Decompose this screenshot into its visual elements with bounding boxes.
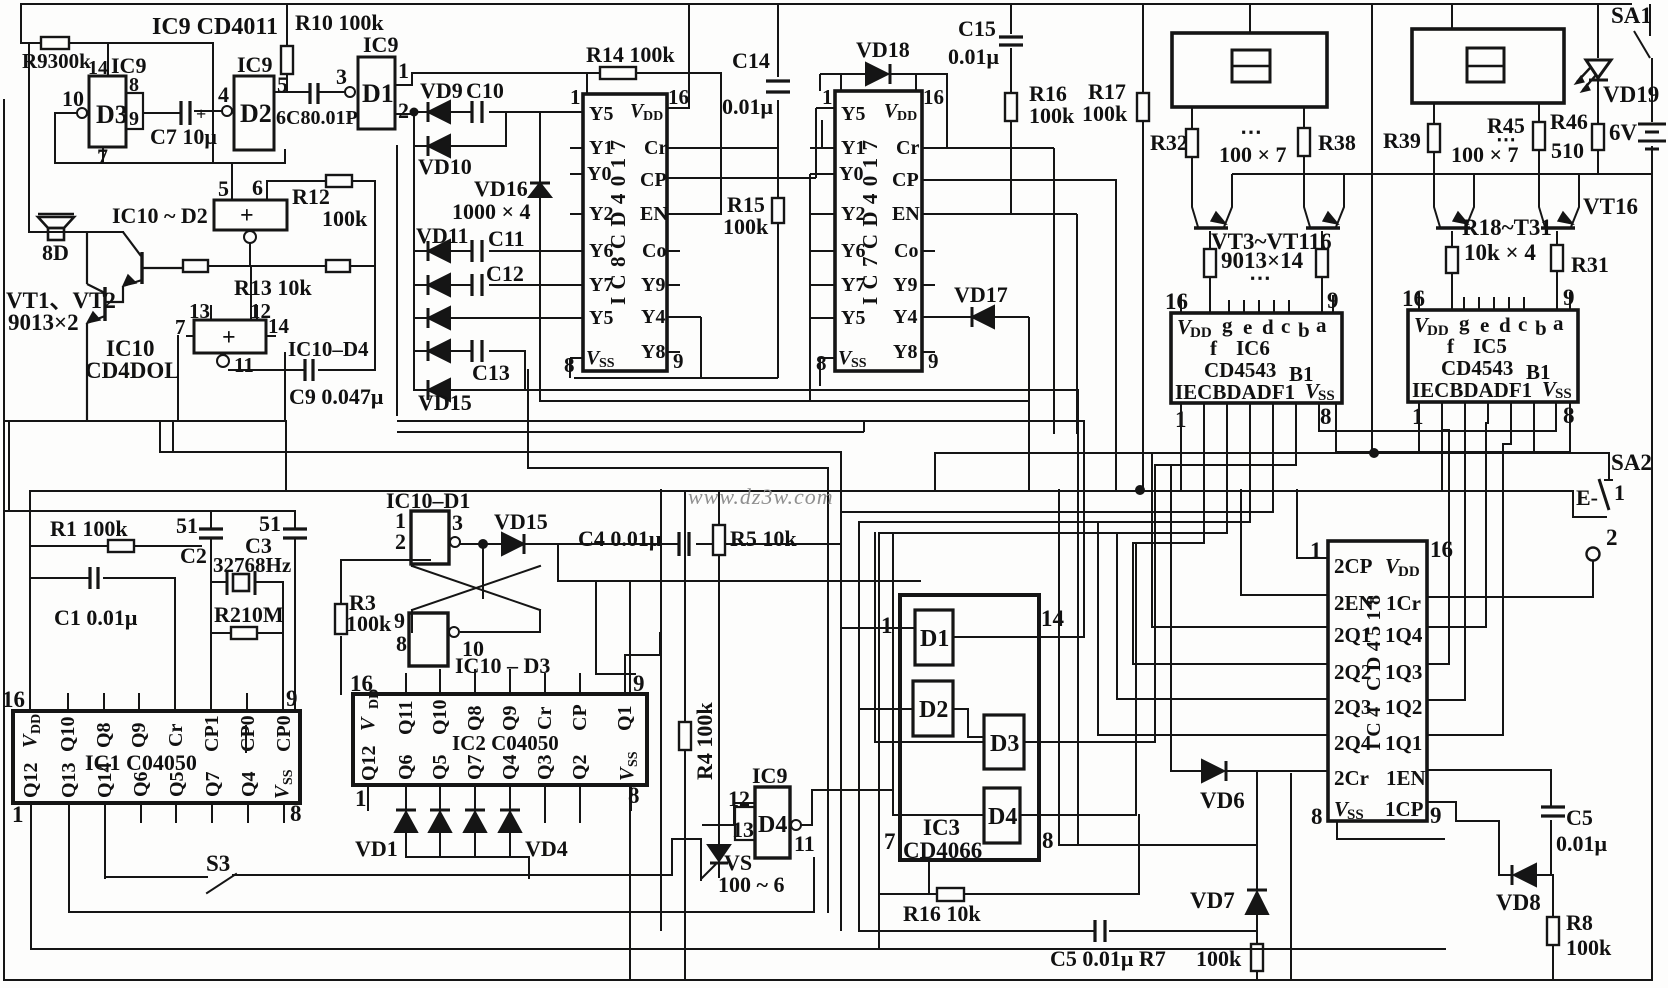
- wire IC7 Y4 to VD17: [922, 317, 1029, 490]
- resistor R39: [1428, 124, 1440, 152]
- wire CP step: [596, 581, 660, 674]
- svg-text:VD9: VD9: [420, 78, 463, 103]
- svg-text:www.dz3w.com: www.dz3w.com: [688, 484, 834, 509]
- svg-text:100 × 7: 100 × 7: [1219, 142, 1287, 167]
- wire S3 run: [105, 839, 701, 880]
- svg-text:8: 8: [816, 351, 827, 375]
- svg-text:Q7: Q7: [464, 754, 486, 780]
- diode VD6: [1202, 760, 1226, 782]
- svg-text:VD15: VD15: [418, 390, 472, 415]
- svg-text:DD: DD: [29, 714, 44, 734]
- svg-text:Q8: Q8: [464, 705, 486, 731]
- wire bus y511: [4, 510, 295, 512]
- svg-text:C15: C15: [958, 16, 996, 41]
- svg-text:100k: 100k: [322, 206, 368, 231]
- resistor R2: [231, 627, 257, 639]
- resistor R38: [1298, 128, 1310, 156]
- svg-text:SS: SS: [599, 356, 615, 371]
- svg-text:Y5: Y5: [841, 103, 865, 125]
- node D1 pin2 junction: [410, 108, 419, 117]
- svg-text:6: 6: [252, 175, 263, 200]
- svg-text:IC10–D4: IC10–D4: [288, 337, 369, 361]
- svg-text:IECBDADF1: IECBDADF1: [1175, 380, 1295, 404]
- diode VD14: [428, 340, 450, 362]
- wire T1 base: [1209, 231, 1211, 313]
- svg-text:SA1: SA1: [1611, 3, 1652, 28]
- svg-text:DD: DD: [643, 109, 663, 124]
- svg-text:a: a: [1316, 313, 1327, 337]
- svg-text:c: c: [1281, 314, 1290, 338]
- wire Vss pin8 IC4: [1337, 821, 1444, 839]
- svg-text:D2: D2: [240, 99, 272, 128]
- svg-text:Q12: Q12: [20, 762, 42, 798]
- diode VD7: [1246, 890, 1268, 914]
- resistor R3: [335, 604, 347, 634]
- capacitor C1: [90, 567, 98, 589]
- svg-text:2: 2: [395, 529, 406, 554]
- svg-text:7: 7: [175, 315, 186, 339]
- wire bus y452 left: [160, 451, 841, 453]
- wire D3/D2 bottom bus: [55, 147, 285, 200]
- svg-text:Q4: Q4: [499, 754, 521, 780]
- svg-text:f: f: [1210, 336, 1218, 360]
- svg-text:C11: C11: [488, 226, 525, 251]
- diode VD12: [428, 274, 450, 296]
- svg-text:14: 14: [268, 314, 290, 338]
- wire R12 run: [267, 181, 375, 370]
- op IC8 box: [583, 94, 667, 371]
- diode VD9: [428, 101, 450, 123]
- svg-text:C4 0.01μ: C4 0.01μ: [578, 526, 662, 551]
- svg-text:1Q2: 1Q2: [1385, 695, 1422, 719]
- gate D2: [234, 76, 274, 150]
- svg-text:C9 0.047μ: C9 0.047μ: [289, 384, 384, 409]
- transistor VT1: [106, 232, 183, 302]
- diode VD16: [529, 183, 551, 197]
- svg-text:9: 9: [1327, 288, 1339, 313]
- svg-text:5: 5: [218, 176, 229, 201]
- wire left risers to IC4: [1098, 453, 1328, 735]
- svg-text:V: V: [19, 733, 41, 748]
- diode VD11: [428, 240, 450, 262]
- resistor R10: [281, 46, 293, 74]
- resistor R32: [1186, 129, 1198, 157]
- svg-text:3: 3: [336, 64, 347, 89]
- wire divider column: [1371, 4, 1373, 452]
- svg-text:Y5: Y5: [589, 103, 613, 125]
- svg-text:SS: SS: [1347, 807, 1364, 823]
- wire C3 column: [294, 511, 296, 711]
- resistor R4: [679, 722, 691, 750]
- wire IC7 left stubs: [810, 120, 835, 401]
- wire R16b row: [879, 815, 1139, 894]
- resistor R46: [1592, 124, 1604, 150]
- svg-text:6C80.01P: 6C80.01P: [276, 107, 358, 129]
- resistor Rb2: [1316, 249, 1328, 277]
- svg-text:Q3: Q3: [534, 754, 556, 780]
- svg-text:IC8CD4017: IC8CD4017: [606, 140, 630, 305]
- svg-text:0.01μ: 0.01μ: [948, 44, 1000, 69]
- svg-text:1: 1: [881, 613, 893, 638]
- wire C4/R5 row: [697, 543, 841, 545]
- svg-text:C5: C5: [1566, 805, 1593, 830]
- svg-text:C10: C10: [466, 78, 504, 103]
- svg-text:1: 1: [1614, 480, 1625, 505]
- diode VD3: [464, 810, 486, 832]
- wire 1CP: [1291, 774, 1499, 980]
- wire IC4 riser 1Q2: [1427, 437, 1465, 700]
- resistor Rb1: [1204, 249, 1216, 277]
- svg-text:Q7: Q7: [202, 771, 224, 797]
- gate IC10-D3: [409, 613, 448, 666]
- svg-text:11: 11: [234, 353, 254, 377]
- svg-text:100 × 7: 100 × 7: [1451, 142, 1519, 167]
- wire bus y533: [879, 533, 1227, 949]
- svg-text:1: 1: [355, 786, 367, 811]
- wire bus y522: [859, 522, 1250, 930]
- svg-text:CP1: CP1: [201, 715, 223, 752]
- wire IC4 riser 1Q1: [1427, 444, 1511, 735]
- svg-text:16: 16: [1402, 286, 1425, 311]
- thyristor VS: [701, 825, 730, 879]
- resistor R45: [1533, 122, 1545, 150]
- svg-text:8: 8: [628, 783, 640, 808]
- svg-text:c: c: [1518, 312, 1527, 336]
- svg-text:CD4543: CD4543: [1441, 356, 1513, 380]
- svg-text:Cr: Cr: [644, 137, 667, 159]
- wire R32 branch: [1192, 107, 1232, 227]
- svg-text:VD10: VD10: [418, 154, 472, 179]
- svg-text:100 ~ 6: 100 ~ 6: [718, 872, 784, 897]
- node junction dots: [1135, 485, 1145, 495]
- svg-text:Cr: Cr: [534, 707, 556, 730]
- svg-text:Q5: Q5: [166, 771, 188, 797]
- svg-text:16: 16: [923, 85, 944, 109]
- wire row VD11/C11: [414, 250, 583, 252]
- svg-text:b: b: [1535, 316, 1547, 340]
- diode VD8: [1512, 864, 1536, 886]
- wire R13 run: [208, 243, 375, 320]
- svg-text:Q8: Q8: [93, 722, 115, 748]
- capacitor C9: [305, 359, 313, 381]
- gate D1: [358, 57, 395, 129]
- svg-text:IC1 C04050: IC1 C04050: [85, 750, 197, 775]
- svg-text:9013×2: 9013×2: [8, 310, 79, 335]
- wire bus y401: [540, 400, 1029, 402]
- capacitor C14: [777, 4, 779, 378]
- svg-text:16: 16: [2, 687, 25, 712]
- op IC6 box: [1171, 313, 1342, 403]
- wire D4 top feed: [734, 803, 755, 825]
- svg-text:Co: Co: [642, 240, 666, 262]
- svg-text:9: 9: [633, 671, 645, 696]
- svg-text:100k: 100k: [1029, 103, 1075, 128]
- svg-text:510: 510: [1551, 138, 1584, 163]
- svg-text:Q11: Q11: [395, 701, 417, 735]
- diode VD18: [820, 74, 947, 148]
- svg-text:Q5: Q5: [429, 754, 451, 780]
- svg-text:R8: R8: [1566, 910, 1593, 935]
- wire R3 column: [341, 560, 430, 694]
- svg-text:Cr: Cr: [896, 137, 919, 159]
- capacitor C5b: [1541, 807, 1565, 816]
- wire VS to D4: [703, 824, 734, 826]
- svg-text:SS: SS: [281, 769, 296, 785]
- svg-text:⋯: ⋯: [1240, 119, 1262, 144]
- wire IC1 top stubs: [30, 694, 247, 711]
- svg-text:1Q1: 1Q1: [1385, 731, 1422, 755]
- wire IC4 riser 1Q3: [1427, 430, 1449, 664]
- svg-text:VD8: VD8: [1496, 890, 1541, 915]
- svg-text:R38: R38: [1318, 130, 1356, 155]
- svg-text:S3: S3: [206, 851, 230, 876]
- svg-text:51: 51: [176, 513, 198, 538]
- svg-text:DD: DD: [1190, 325, 1212, 341]
- wire emitter rail: [1232, 173, 1652, 175]
- svg-text:R16 10k: R16 10k: [903, 901, 981, 926]
- diode VD2: [429, 810, 451, 832]
- svg-text:VD18: VD18: [856, 37, 910, 62]
- svg-text:Q10: Q10: [429, 699, 451, 735]
- svg-text:100k: 100k: [723, 214, 769, 239]
- svg-text:C12: C12: [486, 261, 524, 286]
- wire latch cross: [412, 544, 540, 632]
- wire D3 in/out: [875, 533, 1155, 742]
- wire bottom verticals: [828, 452, 893, 930]
- wire 1EN to C5: [1427, 770, 1551, 875]
- svg-text:Y9: Y9: [893, 274, 917, 296]
- svg-text:13: 13: [189, 299, 210, 323]
- svg-text:Q6: Q6: [395, 754, 417, 780]
- svg-text:SA2: SA2: [1611, 450, 1652, 475]
- resistor R1: [108, 540, 134, 552]
- wire row VD15: [414, 389, 525, 391]
- svg-text:R4 100k: R4 100k: [692, 702, 717, 780]
- wire bus y415: [397, 420, 1084, 422]
- svg-text:9: 9: [1430, 803, 1442, 828]
- svg-text:3: 3: [452, 510, 463, 535]
- svg-text:Q6: Q6: [130, 771, 152, 797]
- svg-text:g: g: [1459, 311, 1470, 335]
- wire C2 column: [210, 511, 212, 711]
- svg-text:Q4: Q4: [238, 771, 260, 797]
- svg-text:g: g: [1222, 313, 1233, 337]
- svg-text:Cr: Cr: [165, 724, 187, 747]
- svg-text:2: 2: [398, 98, 409, 123]
- transistor VT2: [87, 232, 105, 421]
- svg-text:7: 7: [884, 829, 896, 854]
- wire VD8 row: [1499, 875, 1553, 980]
- wire IC5 pin drops: [1319, 402, 1570, 490]
- svg-text:16: 16: [1430, 537, 1453, 562]
- transistor VT3: [1194, 212, 1228, 228]
- capacitor C15: [1010, 4, 1012, 74]
- resistor R15: [772, 198, 784, 223]
- svg-text:13: 13: [732, 817, 754, 842]
- switch S3 blade: [207, 874, 236, 893]
- svg-text:+: +: [196, 104, 206, 124]
- wire bus y386: [525, 389, 1078, 391]
- LED VD19: [1575, 60, 1611, 92]
- svg-text:R39: R39: [1383, 128, 1421, 153]
- svg-text:IC6: IC6: [1236, 336, 1270, 360]
- svg-text:16: 16: [1165, 289, 1188, 314]
- wire bus y468: [528, 370, 828, 468]
- svg-text:C7 10μ: C7 10μ: [150, 124, 217, 149]
- wire enclosure left: [29, 491, 31, 711]
- wire 2CP feed: [1297, 490, 1328, 558]
- wire speaker row: [29, 231, 123, 233]
- svg-text:R9300k: R9300k: [22, 49, 91, 73]
- svg-text:CD4543: CD4543: [1204, 358, 1276, 382]
- svg-text:1Cr: 1Cr: [1386, 591, 1421, 615]
- wire VD1-4 commons: [406, 832, 529, 878]
- wire bus y512: [841, 468, 1273, 512]
- wire anode bus: [397, 112, 414, 415]
- svg-text:IC9: IC9: [363, 32, 398, 57]
- wire y581 bus: [630, 581, 920, 980]
- svg-text:IC5: IC5: [1473, 334, 1507, 358]
- wire R10 drop: [286, 4, 288, 92]
- svg-text:EN: EN: [892, 203, 920, 225]
- svg-text:14: 14: [88, 57, 108, 79]
- svg-text:Q10: Q10: [57, 716, 79, 752]
- resistor R12: [326, 175, 352, 187]
- wire row C13: [414, 351, 525, 390]
- wire 2EN feed: [1241, 490, 1328, 595]
- svg-text:Q1: Q1: [614, 705, 636, 731]
- svg-text:Co: Co: [894, 240, 918, 262]
- wire pin11 C9 run: [229, 369, 375, 371]
- svg-text:D3: D3: [990, 731, 1019, 757]
- switch D4: [984, 788, 1020, 843]
- wire R38 branch: [1304, 107, 1344, 227]
- svg-text:CP: CP: [892, 169, 919, 191]
- wire SA1: [1634, 4, 1652, 122]
- svg-text:8: 8: [290, 801, 302, 826]
- svg-text:C1 0.01μ: C1 0.01μ: [54, 605, 138, 630]
- wire T2 base: [1321, 231, 1323, 313]
- svg-text:CP0: CP0: [237, 715, 259, 752]
- wire row VD9/C10: [414, 111, 583, 113]
- svg-text:+: +: [222, 325, 236, 351]
- wire IC7 pin1/16 top: [841, 74, 916, 91]
- svg-text:8: 8: [1042, 828, 1054, 853]
- svg-text:100k: 100k: [1566, 935, 1612, 960]
- svg-text:V: V: [616, 766, 638, 781]
- resistor R16: [1010, 74, 1012, 214]
- svg-text:IC9: IC9: [237, 52, 272, 77]
- svg-text:DD: DD: [897, 109, 917, 124]
- wire D4 out: [802, 790, 984, 825]
- wire D1 pin2: [395, 113, 414, 115]
- svg-text:0.01μ: 0.01μ: [722, 94, 774, 119]
- svg-text:R46: R46: [1550, 109, 1588, 134]
- gate IC9-D4: [735, 787, 790, 858]
- resistor R14: [600, 67, 636, 79]
- wire bus y434: [397, 421, 864, 432]
- transistor VT16: [1541, 212, 1575, 228]
- svg-text:10: 10: [62, 86, 84, 111]
- svg-text:8: 8: [564, 353, 575, 377]
- svg-text:2: 2: [1606, 525, 1618, 550]
- svg-text:CD4DOL: CD4DOL: [85, 358, 180, 383]
- svg-text:CP: CP: [569, 704, 591, 731]
- wire VD19/R46 branch: [1597, 4, 1599, 174]
- battery 6V: [1638, 124, 1666, 149]
- wire IC1 bottom pins: [31, 803, 284, 949]
- transistor VT4: [1306, 212, 1340, 228]
- wire C1 row: [30, 578, 175, 711]
- wire crystal row: [211, 582, 283, 711]
- diode VD1: [395, 810, 417, 832]
- svg-text:IC3: IC3: [923, 815, 960, 840]
- wire IC2 top stubs: [406, 655, 625, 694]
- wire D1 in/out: [841, 421, 1084, 637]
- switch D3: [984, 715, 1024, 769]
- svg-text:VT16: VT16: [1583, 194, 1638, 219]
- svg-text:a: a: [1553, 311, 1564, 335]
- svg-text:VD4: VD4: [525, 836, 568, 861]
- svg-text:1Q4: 1Q4: [1385, 623, 1423, 647]
- svg-text:⋯: ⋯: [1249, 265, 1271, 290]
- capacitor C7: [181, 101, 190, 125]
- diode VD17: [972, 306, 994, 328]
- resistor R9: [41, 37, 69, 49]
- svg-text:EN: EN: [640, 203, 668, 225]
- svg-text:R14 100k: R14 100k: [586, 42, 675, 67]
- wire VD15 out: [526, 544, 677, 581]
- switch SA2: [1573, 452, 1613, 517]
- svg-text:V: V: [357, 716, 379, 731]
- svg-text:4: 4: [218, 82, 229, 107]
- svg-text:f: f: [1447, 334, 1455, 358]
- svg-text:C13: C13: [472, 360, 510, 385]
- svg-text:Y4: Y4: [893, 306, 917, 328]
- svg-text:6V: 6V: [1609, 120, 1638, 145]
- op IC2 box: [353, 694, 647, 785]
- svg-text:1: 1: [398, 58, 409, 83]
- svg-text:1: 1: [1310, 538, 1322, 563]
- svg-text:R18~T31: R18~T31: [1462, 215, 1552, 240]
- capacitor C4: [679, 532, 689, 556]
- wire display feeds: [1250, 4, 1452, 33]
- diode VD13: [428, 307, 450, 329]
- svg-text:D1: D1: [362, 79, 394, 108]
- capacitor C3: [283, 529, 307, 538]
- wire IC8 left stubs: [570, 148, 583, 318]
- svg-text:IECBDADF1: IECBDADF1: [1412, 378, 1532, 402]
- display DS2: [1412, 29, 1564, 103]
- svg-text:VD16: VD16: [474, 176, 528, 201]
- wire bottom buses: [31, 858, 1445, 949]
- wire IC7 Vss: [820, 358, 835, 386]
- svg-text:R1 100k: R1 100k: [50, 516, 128, 541]
- svg-text:R210M: R210M: [214, 602, 284, 627]
- crystal B1 32768Hz: [227, 571, 255, 595]
- svg-text:D1: D1: [920, 626, 949, 652]
- svg-text:VD7: VD7: [1190, 888, 1235, 913]
- svg-text:VD19: VD19: [1603, 82, 1659, 107]
- op IC7 box: [835, 91, 922, 371]
- wire IC2 bottom pins: [368, 785, 631, 822]
- svg-text:D4: D4: [988, 804, 1017, 830]
- svg-text:IC2 C04050: IC2 C04050: [452, 731, 559, 755]
- svg-text:9: 9: [673, 349, 684, 373]
- svg-text:8: 8: [1563, 403, 1575, 428]
- wire D2 in/out: [859, 709, 984, 737]
- op IC3 box: [900, 595, 1039, 860]
